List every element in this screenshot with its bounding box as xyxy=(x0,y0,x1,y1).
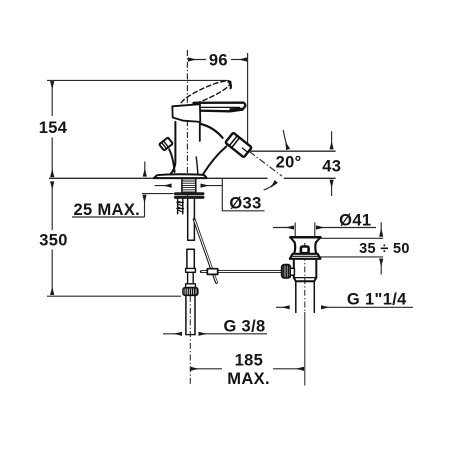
svg-text:Ø41: Ø41 xyxy=(339,212,371,230)
wire: diam33 dimension arrows xyxy=(155,185,172,187)
wire: G1-1/4 dimension line xyxy=(276,306,290,308)
knurled side nut xyxy=(282,265,291,278)
pipe narrow section xyxy=(188,272,194,284)
pipe joint band 1 xyxy=(186,268,196,272)
body column left edge xyxy=(171,122,176,174)
wire: 154 top extension line xyxy=(47,79,228,81)
tail pipe G3/8 xyxy=(186,295,195,334)
body inner right small edge xyxy=(196,157,198,174)
wire: faucet vertical centerline (dash-dot) xyxy=(186,50,188,176)
washer bar upper xyxy=(174,192,205,195)
wire: 350 bottom extension line xyxy=(47,295,181,297)
svg-text:Ø33: Ø33 xyxy=(229,195,261,213)
svg-text:25 MAX.: 25 MAX. xyxy=(73,201,140,219)
pipe joint band 2 xyxy=(186,284,196,288)
rod socket connector xyxy=(290,268,294,275)
wire: 35-50 upper line xyxy=(319,237,383,239)
wire: 96 right extension line xyxy=(247,53,249,149)
svg-text:35 ÷ 50: 35 ÷ 50 xyxy=(359,241,410,257)
node 25max upper arrow xyxy=(144,162,146,177)
node 43 upper arrow xyxy=(331,131,333,149)
aerator xyxy=(225,133,252,158)
wire: deck line xyxy=(49,177,268,179)
base flange xyxy=(154,174,207,178)
svg-text:154: 154 xyxy=(39,119,68,137)
supply pipe lower segment xyxy=(187,249,194,268)
collar ring xyxy=(290,254,321,259)
svg-text:185: 185 xyxy=(235,352,264,370)
drain flange top xyxy=(290,236,320,239)
lever blade inner line xyxy=(200,106,240,108)
wire: drain centerline extension xyxy=(304,243,306,312)
pop-up knob xyxy=(159,137,173,150)
svg-text:43: 43 xyxy=(322,157,341,175)
mounting stud with nut xyxy=(177,199,184,214)
wire: diam41 dimension line xyxy=(273,227,294,229)
shank thread lines xyxy=(183,181,195,190)
drain tail pipe xyxy=(296,281,315,312)
wire: diam33 leader corner xyxy=(222,178,264,211)
lever handle blade xyxy=(194,103,246,112)
drain body xyxy=(294,259,317,278)
svg-text:MAX.: MAX. xyxy=(227,370,270,388)
wire: 154 dimension line xyxy=(51,81,53,116)
wire: 350 dimension line xyxy=(51,182,53,230)
wire: 25max underline xyxy=(72,216,145,218)
wire: 20 deg dash-dot slope line xyxy=(249,152,282,177)
wire: 185max dimension line xyxy=(191,368,223,370)
node 35-50 upper arrow xyxy=(380,222,382,236)
node 20 deg upper arc arrow xyxy=(283,130,288,149)
supply pipe upper segment xyxy=(188,199,195,240)
pop-up rod upper xyxy=(169,149,174,172)
pop-up diagonal rod xyxy=(194,220,216,283)
overflow window xyxy=(301,247,309,254)
wire: tail pipe centerline extension xyxy=(189,296,191,386)
pop-up horizontal rod xyxy=(201,270,282,273)
wire: 35-50 lower line xyxy=(320,256,383,258)
node 35-50 lower arrow xyxy=(380,259,382,275)
lever blade dark underside xyxy=(230,108,244,111)
spout outer curve xyxy=(200,124,222,138)
svg-text:96: 96 xyxy=(209,51,228,69)
node 43 lower arrow xyxy=(331,180,333,196)
wire: 96 dimension line xyxy=(188,59,206,61)
node 25max leader arrow xyxy=(144,195,146,217)
svg-text:20°: 20° xyxy=(276,153,302,171)
svg-text:G 3/8: G 3/8 xyxy=(223,317,265,335)
threaded shank xyxy=(182,179,196,193)
knurled hose nut xyxy=(183,288,198,296)
body column right edge xyxy=(199,122,201,141)
tail pipe bottom edge xyxy=(186,334,195,336)
wire: G3/8 dimension line xyxy=(163,333,182,335)
svg-text:350: 350 xyxy=(39,231,68,249)
node diam33 curved leader arrow xyxy=(264,182,277,190)
cartridge cap xyxy=(172,104,200,122)
wire: aerator level line xyxy=(250,150,335,152)
svg-text:G 1"1/4: G 1"1/4 xyxy=(347,290,407,308)
drain cup sides xyxy=(294,242,295,253)
wire: diam41 extension ticks xyxy=(294,223,296,238)
wire: deck underside line xyxy=(142,193,174,195)
washer bar lower xyxy=(174,196,205,199)
lever dashed open position xyxy=(178,77,233,110)
spout inner curve xyxy=(203,146,226,174)
rod clamp xyxy=(207,269,217,275)
